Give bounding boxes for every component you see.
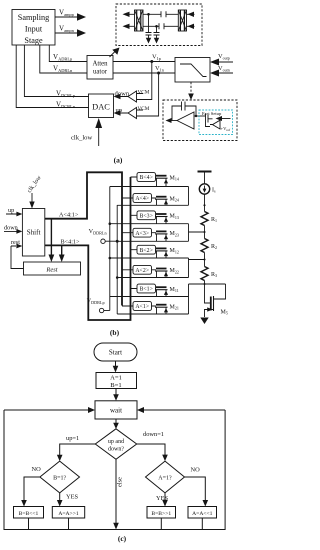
svg-text:VCM: VCM <box>138 90 150 96</box>
svg-text:R1: R1 <box>211 217 217 223</box>
svg-text:M12: M12 <box>170 248 179 254</box>
svg-text:Is: Is <box>212 188 216 194</box>
svg-text:A=1?: A=1? <box>158 476 172 482</box>
svg-text:NO: NO <box>191 467 201 474</box>
svg-text:clk_low: clk_low <box>71 135 92 142</box>
svg-text:down: down <box>4 225 18 232</box>
svg-text:A=A<<1: A=A<<1 <box>192 511 213 517</box>
svg-text:Shift: Shift <box>27 229 41 237</box>
svg-text:M14: M14 <box>170 175 179 181</box>
svg-text:Start: Start <box>109 349 122 357</box>
svg-text:else: else <box>117 477 124 487</box>
svg-text:M23: M23 <box>170 231 179 237</box>
svg-text:R3: R3 <box>211 272 217 278</box>
svg-text:A<4>: A<4> <box>135 196 149 202</box>
svg-text:down=1: down=1 <box>143 431 164 438</box>
svg-text:up=1: up=1 <box>66 435 79 442</box>
svg-text:A=A>>1: A=A>>1 <box>58 511 79 517</box>
svg-text:M22: M22 <box>170 268 179 274</box>
svg-text:A<4:1>: A<4:1> <box>59 212 79 219</box>
svg-text:A<2>: A<2> <box>135 268 149 274</box>
svg-text:(b): (b) <box>110 328 120 337</box>
svg-text:up: up <box>116 107 123 114</box>
svg-text:R2: R2 <box>211 244 217 250</box>
svg-text:B<4>: B<4> <box>140 175 153 181</box>
svg-text:Atten: Atten <box>92 61 108 68</box>
svg-text:A=1: A=1 <box>110 375 122 382</box>
svg-text:M24: M24 <box>170 196 179 202</box>
svg-text:Sampling: Sampling <box>18 13 49 22</box>
svg-text:A<1>: A<1> <box>135 304 149 310</box>
svg-text:M5: M5 <box>221 310 228 316</box>
svg-text:B<2>: B<2> <box>140 248 153 254</box>
svg-text:down?: down? <box>108 447 124 453</box>
svg-text:M13: M13 <box>170 214 179 220</box>
svg-text:DAC: DAC <box>92 103 110 112</box>
svg-text:A<3>: A<3> <box>135 231 149 237</box>
svg-text:M21: M21 <box>170 304 179 310</box>
svg-text:YES: YES <box>156 495 169 502</box>
svg-text:YES: YES <box>66 494 79 501</box>
svg-text:NO: NO <box>32 466 42 473</box>
svg-text:B<1>: B<1> <box>140 287 153 293</box>
svg-text:(a): (a) <box>114 156 123 165</box>
svg-text:wait: wait <box>110 407 122 415</box>
svg-text:VCM: VCM <box>138 106 150 112</box>
svg-text:M11: M11 <box>170 287 179 293</box>
svg-text:B<3>: B<3> <box>140 214 153 220</box>
svg-text:uator: uator <box>93 69 108 76</box>
svg-text:B=B<<1: B=B<<1 <box>19 511 39 517</box>
svg-text:B=B>>1: B=B>>1 <box>151 511 171 517</box>
svg-text:(c): (c) <box>118 534 127 543</box>
svg-text:B=1?: B=1? <box>53 476 66 482</box>
svg-text:B=1: B=1 <box>110 382 121 389</box>
svg-text:Rest: Rest <box>45 267 57 274</box>
svg-text:B<4:1>: B<4:1> <box>61 239 81 246</box>
svg-text:down: down <box>115 91 130 98</box>
svg-text:Input: Input <box>25 25 43 34</box>
svg-text:rest: rest <box>11 239 20 246</box>
svg-text:up and: up and <box>108 439 124 445</box>
svg-text:Fast Setup: Fast Setup <box>202 111 222 116</box>
svg-text:Stage: Stage <box>24 36 43 45</box>
svg-text:up: up <box>8 207 14 214</box>
